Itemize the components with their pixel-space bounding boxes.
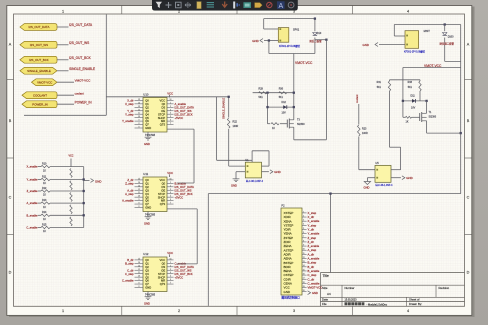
svg-text:I2S_OUT_BCK: I2S_OUT_BCK	[29, 58, 49, 62]
svg-text:POWER_IN: POWER_IN	[75, 100, 93, 104]
svg-text:4: 4	[303, 224, 304, 226]
svg-text:4: 4	[407, 309, 409, 313]
wire U5 pin4	[391, 169, 401, 171]
svg-text:R14: R14	[42, 211, 47, 214]
svg-text:11: 11	[138, 113, 140, 115]
svg-text:C_dir: C_dir	[127, 268, 134, 272]
svg-text:GND: GND	[406, 176, 412, 180]
P2 pin 1 XSTEP	[302, 212, 307, 214]
svg-text:Number: Number	[345, 286, 355, 290]
power port GND left block2	[375, 43, 378, 47]
port I2S_OUT_DATA	[20, 24, 57, 31]
wire SINGLE_ENABLE drop 1	[216, 97, 218, 161]
wire resistor rail block1	[253, 92, 294, 94]
wire D100 bottom	[445, 60, 461, 62]
toolbar icon plus	[166, 2, 172, 8]
svg-text:5K1: 5K1	[279, 96, 284, 99]
shift register IC U10	[143, 98, 167, 133]
svg-text:SINGLE_ENABLE: SINGLE_ENABLE	[69, 67, 95, 71]
svg-text:Title: Title	[323, 274, 329, 278]
svg-text:Q5: Q5	[145, 116, 149, 120]
svg-text:STCP: STCP	[158, 112, 165, 116]
svg-text:4: 4	[170, 272, 171, 274]
svg-text:6: 6	[170, 120, 171, 122]
svg-text:GND: GND	[274, 170, 280, 174]
P2 pin 16 CSTEP	[302, 274, 307, 276]
svg-text:2: 2	[178, 309, 180, 313]
P2 pin 5 YDIR	[302, 228, 307, 230]
toolbar icon red circle	[267, 2, 272, 7]
wire from port I2S_OUT_DATA	[57, 26, 69, 28]
svg-text:1: 1	[170, 262, 171, 264]
svg-text:Q3: Q3	[145, 188, 149, 192]
svg-text:8: 8	[303, 240, 304, 242]
svg-text:5: 5	[303, 228, 304, 230]
svg-text:74HC595: 74HC595	[145, 214, 156, 217]
svg-text:15.03.2023: 15.03.2023	[345, 299, 358, 302]
resistor R30	[279, 92, 287, 94]
wire D10 branch	[315, 39, 327, 41]
shift register IC U12	[143, 257, 167, 292]
svg-text:R31: R31	[377, 81, 382, 84]
svg-text:R33: R33	[408, 81, 413, 84]
svg-text:Q3: Q3	[145, 109, 149, 113]
resistor R33	[419, 81, 421, 91]
svg-text:GND: GND	[364, 186, 370, 190]
wire to U1 pin1	[229, 165, 246, 167]
svg-text:C_enable: C_enable	[175, 261, 187, 265]
svg-text:GND: GND	[95, 179, 101, 183]
resistor R10	[38, 166, 41, 168]
P2 pin 15 BENA	[302, 270, 307, 272]
svg-text:8: 8	[139, 127, 140, 129]
svg-text:Q2: Q2	[145, 185, 149, 189]
cascade wire U11 to U12	[167, 208, 197, 210]
svg-text:Q0: Q0	[145, 178, 149, 182]
U11 VCC label	[169, 174, 171, 177]
wire source return block1	[294, 139, 327, 141]
svg-text:3: 3	[293, 309, 295, 313]
cascade wire U10 to U11	[167, 128, 194, 130]
svg-text:Q2: Q2	[145, 265, 149, 269]
wire from port POWER_IN	[57, 103, 74, 105]
toolbar icon down arrow	[222, 2, 227, 8]
svg-text:C_enable: C_enable	[122, 279, 134, 283]
ground U5	[364, 182, 370, 185]
toolbar icon teal box	[243, 2, 251, 8]
power port GND right of U5	[391, 177, 401, 179]
svg-text:B_step: B_step	[125, 261, 134, 265]
P2 pin 17 CDIR	[302, 278, 307, 280]
svg-text:20: 20	[303, 290, 305, 292]
P2 pin 12 AENA	[302, 258, 307, 260]
svg-text:15: 15	[138, 258, 140, 260]
P2 pin 3 XENA	[302, 220, 307, 222]
svg-text:X_step: X_step	[125, 102, 134, 106]
wire SINGLE_ENABLE horizontal	[106, 96, 228, 98]
svg-text:16: 16	[170, 258, 172, 260]
svg-text:POWER_IN: POWER_IN	[32, 102, 47, 106]
mosfet T3	[286, 120, 288, 128]
svg-text:Q4: Q4	[145, 112, 149, 116]
svg-text:74HC595: 74HC595	[145, 134, 156, 137]
svg-text:12: 12	[138, 109, 140, 111]
svg-text:防反接二极管: 防反接二极管	[440, 41, 455, 45]
svg-text:7: 7	[170, 123, 171, 125]
svg-text:File: File	[322, 302, 327, 306]
svg-text:GND: GND	[145, 126, 151, 130]
svg-text:雕刻机控制接口: 雕刻机控制接口	[282, 296, 301, 300]
gate resistor block2	[406, 116, 412, 118]
svg-text:I2S_OUT_DATA: I2S_OUT_DATA	[175, 105, 195, 109]
svg-text:Y_dir: Y_dir	[127, 109, 133, 113]
svg-text:Date: Date	[322, 298, 328, 302]
svg-text:GND: GND	[144, 222, 150, 226]
power port GND at P2 pin20	[308, 291, 311, 295]
svg-text:74HC595: 74HC595	[145, 294, 156, 297]
svg-text:R13: R13	[42, 199, 47, 202]
wire row R13	[50, 202, 84, 204]
svg-text:Y_step: Y_step	[125, 112, 134, 116]
svg-text:+5VCC: +5VCC	[175, 195, 184, 199]
svg-text:14: 14	[138, 102, 140, 104]
svg-text:Q5: Q5	[145, 195, 149, 199]
svg-text:R11: R11	[42, 175, 47, 178]
U1 top loop wires	[251, 151, 253, 162]
svg-text:GND: GND	[363, 43, 369, 47]
resistor R13	[38, 202, 41, 204]
svg-text:A_enable: A_enable	[122, 199, 134, 203]
port I2S_OUT_WS	[20, 41, 57, 48]
svg-text:10: 10	[138, 276, 140, 278]
svg-text:D: D	[9, 271, 12, 275]
svg-text:14: 14	[303, 265, 305, 267]
svg-text:4: 4	[407, 9, 409, 13]
svg-text:16: 16	[303, 274, 305, 276]
P2 pin 4 YSTEP	[302, 224, 307, 226]
svg-text:I2S_OUT_WS: I2S_OUT_WS	[30, 43, 48, 47]
svg-text:5K1: 5K1	[408, 86, 413, 89]
resistor R16	[70, 169, 72, 178]
svg-text:I2S_OUT_BCK: I2S_OUT_BCK	[69, 56, 91, 60]
wire from port SINGLE_ENABLE	[57, 70, 69, 72]
svg-text:2: 2	[170, 106, 171, 108]
svg-text:B_dir: B_dir	[127, 258, 133, 262]
svg-text:1K: 1K	[272, 127, 275, 130]
svg-text:C_enable: C_enable	[26, 226, 38, 230]
wire to U5 pin1	[359, 169, 375, 171]
svg-text:SI2300: SI2300	[297, 123, 305, 126]
U11 ground symbol	[147, 212, 149, 217]
svg-text:Q0: Q0	[162, 181, 166, 185]
svg-text:SINGLE_ENABLE: SINGLE_ENABLE	[27, 69, 51, 73]
svg-text:+5VCC: +5VCC	[175, 275, 184, 279]
wire row R14	[50, 214, 84, 216]
svg-text:Y_enable: Y_enable	[27, 178, 39, 182]
svg-text:VCC: VCC	[167, 171, 173, 175]
svg-text:U1: U1	[245, 158, 249, 162]
svg-text:6: 6	[303, 232, 304, 234]
svg-text:1: 1	[303, 211, 304, 213]
wire source return block2	[427, 132, 461, 134]
svg-text:U12: U12	[143, 252, 149, 256]
connector SP01 (KF301)	[278, 28, 289, 43]
connector MIST (KF301)	[405, 31, 419, 49]
svg-text:16: 16	[170, 99, 172, 101]
P2 pin 19 VCC	[302, 287, 307, 289]
toolbar icon select	[176, 2, 182, 8]
svg-text:Z_step: Z_step	[125, 181, 134, 185]
svg-text:18: 18	[303, 282, 305, 284]
svg-text:13: 13	[303, 261, 305, 263]
power port GND left block1	[260, 39, 263, 43]
svg-text:ELC-08-1.0SP-4: ELC-08-1.0SP-4	[246, 181, 264, 183]
svg-text:1K: 1K	[43, 182, 46, 185]
P2 pin 2 XDIR	[302, 216, 307, 218]
wire R33 drop	[419, 80, 421, 81]
svg-text:VCC: VCC	[167, 91, 173, 95]
gnd bus vertical	[83, 167, 85, 228]
svg-text:1K: 1K	[43, 169, 46, 172]
toolbar icon teal lines	[207, 3, 214, 7]
wire port-frame bottom	[24, 114, 106, 116]
svg-text:A: A	[9, 43, 12, 47]
svg-text:D11: D11	[411, 95, 416, 98]
svg-text:GND: GND	[145, 206, 151, 210]
resistor R18	[70, 193, 72, 202]
shift register IC U11	[143, 177, 167, 212]
svg-text:X_enable: X_enable	[27, 165, 39, 169]
svg-text:1: 1	[62, 309, 64, 313]
svg-text:8: 8	[139, 286, 140, 288]
svg-text:I2S_OUT_BCK: I2S_OUT_BCK	[175, 112, 193, 116]
resistor R19	[70, 205, 72, 214]
svg-text:14: 14	[138, 262, 140, 264]
svg-text:3: 3	[303, 220, 304, 222]
svg-text:15: 15	[138, 178, 140, 180]
svg-text:9: 9	[303, 244, 304, 246]
svg-text:12: 12	[303, 257, 305, 259]
svg-text:A_enable: A_enable	[27, 201, 39, 205]
connector U5	[375, 165, 391, 182]
svg-text:Q0: Q0	[162, 102, 166, 106]
port COOLANT	[22, 92, 57, 99]
wire from port VMOT-VCC	[57, 81, 74, 83]
svg-text:OE: OE	[161, 109, 165, 113]
svg-text:4: 4	[170, 113, 171, 115]
svg-text:9: 9	[139, 279, 140, 281]
svg-text:C_step: C_step	[125, 272, 134, 276]
svg-text:17: 17	[303, 278, 305, 280]
svg-text:DS: DS	[161, 185, 165, 189]
svg-text:SI2300: SI2300	[429, 115, 437, 118]
svg-text:Y_enable: Y_enable	[122, 119, 134, 123]
port SINGLE_ENABLE	[20, 67, 57, 74]
svg-text:OE: OE	[161, 268, 165, 272]
svg-text:Q6: Q6	[145, 279, 149, 283]
svg-text:R12: R12	[42, 187, 47, 190]
wire from port COOLANT	[57, 94, 74, 96]
wire VMOT rail block2	[403, 67, 461, 69]
svg-text:GND: GND	[312, 291, 318, 295]
svg-text:1K: 1K	[43, 206, 46, 209]
svg-text:D100: D100	[448, 35, 454, 38]
svg-text:1K: 1K	[406, 120, 409, 123]
svg-text:VCC: VCC	[160, 99, 166, 103]
svg-text:Q6: Q6	[145, 119, 149, 123]
U12 VCC label	[169, 254, 171, 257]
svg-text:10: 10	[138, 196, 140, 198]
svg-text:I2S_OUT_WS: I2S_OUT_WS	[175, 188, 192, 192]
svg-text:Q1: Q1	[145, 102, 149, 106]
svg-text:STCP: STCP	[158, 272, 165, 276]
svg-text:GND: GND	[231, 184, 237, 188]
svg-text:X_dir: X_dir	[127, 99, 133, 103]
long vertical wire left	[207, 194, 209, 306]
P2 pin 11 ADIR	[302, 253, 307, 255]
svg-text:8: 8	[139, 206, 140, 208]
power port GND arrow right	[84, 180, 90, 182]
svg-text:Q7: Q7	[145, 282, 149, 286]
svg-text:Q7: Q7	[145, 202, 149, 206]
wire pin2 gnd block1	[264, 40, 278, 42]
svg-text:11: 11	[303, 253, 305, 255]
svg-text:Q7: Q7	[145, 123, 149, 127]
svg-text:6: 6	[170, 199, 171, 201]
svg-text:SHCP: SHCP	[158, 195, 166, 199]
wire U1 pin2 to ground	[236, 171, 245, 173]
svg-text:5K1: 5K1	[377, 86, 382, 89]
svg-text:7: 7	[303, 236, 304, 238]
svg-text:Z_dir: Z_dir	[127, 178, 133, 182]
connector U1	[245, 162, 261, 178]
svg-text:R30: R30	[279, 88, 284, 91]
svg-text:Z_enable: Z_enable	[27, 189, 38, 193]
resistor R17	[70, 181, 72, 190]
svg-text:2: 2	[170, 185, 171, 187]
svg-text:5: 5	[170, 116, 171, 118]
wire left drop block1	[268, 41, 270, 54]
wire R22 drop	[228, 97, 230, 118]
svg-text:A_step: A_step	[125, 192, 134, 196]
svg-text:VCC: VCC	[68, 155, 73, 158]
wire row R15	[50, 227, 84, 229]
mosfet T1	[419, 113, 421, 121]
svg-text:R23: R23	[362, 128, 367, 131]
svg-text:VMOT-VCC: VMOT-VCC	[75, 78, 92, 82]
svg-text:13: 13	[138, 106, 140, 108]
svg-text:VMOT-VCC: VMOT-VCC	[295, 61, 313, 65]
svg-text:GND: GND	[145, 286, 151, 290]
svg-text:I2S_OUT_WS: I2S_OUT_WS	[175, 268, 192, 272]
svg-text:- Module1.SchDoc: - Module1.SchDoc	[367, 303, 388, 306]
svg-text:B: B	[467, 119, 470, 123]
svg-text:Q7S: Q7S	[160, 123, 166, 127]
resistor R15	[38, 227, 41, 229]
svg-text:DS: DS	[161, 265, 165, 269]
svg-text:SHCP: SHCP	[158, 275, 166, 279]
svg-text:1: 1	[62, 9, 64, 13]
svg-text:Q1: Q1	[145, 261, 149, 265]
zener rail block2	[403, 100, 427, 102]
svg-text:I2S_OUT_BCK: I2S_OUT_BCK	[175, 272, 193, 276]
wire gate block2	[402, 101, 404, 117]
svg-text:19: 19	[303, 286, 305, 288]
resistor R20	[70, 217, 72, 226]
wire VMOT drop block1	[293, 54, 295, 109]
svg-text:A_enable: A_enable	[175, 102, 187, 106]
svg-text:12: 12	[138, 269, 140, 271]
wire from port I2S_OUT_WS	[57, 44, 69, 46]
svg-text:100R: 100R	[362, 132, 368, 135]
toolbar icon letter A	[277, 1, 285, 9]
svg-text:I2S_OUT_DATA: I2S_OUT_DATA	[175, 185, 195, 189]
svg-text:8: 8	[139, 203, 140, 205]
svg-text:1K: 1K	[43, 218, 46, 221]
wire gate block1	[268, 123, 271, 125]
svg-text:5: 5	[170, 276, 171, 278]
svg-text:B_enable: B_enable	[175, 181, 187, 185]
svg-text:DS: DS	[161, 105, 165, 109]
svg-text:C: C	[467, 196, 470, 200]
svg-text:SHCP: SHCP	[158, 116, 166, 120]
wire top rect block1	[264, 18, 315, 20]
wire to U1 top loop	[217, 159, 253, 161]
svg-text:10V: 10V	[282, 112, 287, 115]
resistor R22	[227, 118, 230, 128]
pull-up resistor network VCC stub	[70, 159, 72, 167]
wire R23 drop	[358, 104, 360, 125]
resistor R14	[38, 214, 41, 216]
svg-text:9: 9	[139, 199, 140, 201]
svg-text:KF301-2P-5.08螺钉: KF301-2P-5.08螺钉	[279, 44, 301, 48]
svg-text:ELC-08-1.0SP-4: ELC-08-1.0SP-4	[376, 185, 394, 187]
svg-text:I2S_OUT_DATA: I2S_OUT_DATA	[69, 23, 93, 27]
P2 pin 10 ASTEP	[302, 249, 307, 251]
svg-text:100R: 100R	[233, 125, 239, 128]
wire zener rail block1	[267, 93, 269, 124]
svg-text:10: 10	[138, 116, 140, 118]
svg-text:U10: U10	[143, 93, 149, 97]
svg-text:14: 14	[138, 182, 140, 184]
wire resistor rail block2	[390, 79, 421, 81]
svg-text:Revision: Revision	[439, 286, 450, 290]
svg-text:MIST: MIST	[424, 29, 431, 33]
zener diode D12	[283, 105, 287, 109]
svg-text:1K: 1K	[43, 194, 46, 197]
svg-text:Q4: Q4	[145, 272, 149, 276]
svg-text:Q0: Q0	[162, 261, 166, 265]
svg-text:A_dir: A_dir	[127, 188, 133, 192]
svg-text:GND: GND	[144, 142, 150, 146]
svg-text:11: 11	[138, 192, 140, 194]
svg-text:I2S_OUT_DATA: I2S_OUT_DATA	[28, 25, 49, 29]
svg-text:10: 10	[303, 249, 305, 251]
U12 ground symbol	[147, 292, 149, 297]
svg-text:11: 11	[138, 272, 140, 274]
svg-text:R29: R29	[259, 88, 264, 91]
P2 pin 13 BSTEP	[302, 262, 307, 264]
toolbar icon filter	[156, 2, 162, 8]
svg-text:5: 5	[170, 196, 171, 198]
svg-text:Q2: Q2	[145, 105, 149, 109]
diode D100	[443, 33, 447, 36]
port POWER_IN	[22, 101, 57, 108]
toolbar icon arc circle	[288, 2, 294, 8]
svg-text:Sheet of: Sheet of	[409, 298, 420, 302]
svg-text:16: 16	[170, 178, 172, 180]
svg-text:7: 7	[170, 203, 171, 205]
